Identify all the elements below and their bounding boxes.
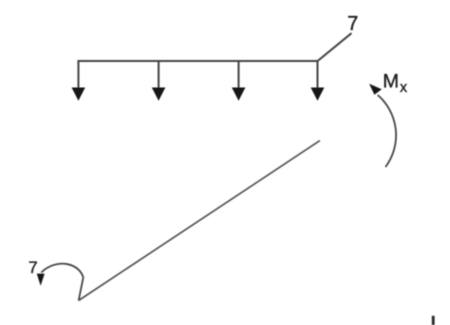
bottom moment arrowhead: [37, 274, 45, 286]
moment Mx arrowhead: [369, 84, 382, 95]
load arrow 3 head: [232, 88, 246, 101]
bottom moment arrow arc: [41, 264, 83, 278]
load arrow 2 stem: [158, 60, 160, 89]
load arrow 1 stem: [77, 60, 79, 89]
load arrow 4 head: [311, 88, 325, 101]
svg-text:x: x: [400, 80, 408, 96]
wire distributed-load top line: [78, 60, 317, 62]
beam diagonal line: [79, 141, 320, 301]
cursor tick bottom-right: [432, 316, 435, 325]
load arrow 4 stem: [317, 60, 319, 89]
leader line to label 7: [318, 33, 352, 61]
svg-text:7: 7: [347, 13, 358, 35]
load arrow 3 stem: [238, 60, 240, 89]
svg-text:7: 7: [28, 258, 37, 277]
load arrow 2 head: [152, 88, 166, 101]
moment Mx arc: [378, 95, 396, 167]
load arrow 1 head: [72, 88, 86, 101]
svg-text:M: M: [383, 70, 399, 92]
bottom moment arrow tail segment: [79, 278, 84, 301]
